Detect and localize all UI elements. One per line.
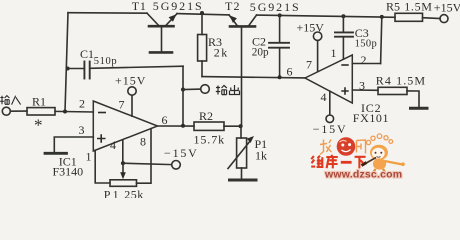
svg-text:3: 3	[79, 123, 85, 137]
terminal +15V right	[440, 15, 448, 23]
resistor R4	[378, 87, 419, 107]
wire top segment T1 to T2	[177, 14, 229, 15]
wire R2 right	[224, 125, 241, 127]
resistor R3	[198, 14, 207, 77]
输	[0, 96, 4, 105]
svg-text:7: 7	[119, 98, 125, 112]
node R3 top	[200, 11, 204, 15]
node output branch	[181, 88, 185, 92]
svg-text:+15V: +15V	[434, 0, 460, 14]
svg-text:R1: R1	[32, 94, 46, 108]
ground IC1 pin3	[45, 152, 67, 155]
入	[12, 96, 21, 105]
下	[355, 157, 366, 169]
node R2 right	[239, 124, 243, 128]
svg-text:510p: 510p	[94, 56, 117, 67]
ground P1 1k	[230, 179, 257, 182]
svg-text:FX101: FX101	[353, 111, 389, 125]
watermark seal circle face	[337, 137, 356, 156]
node C1 left	[66, 67, 70, 71]
svg-text:6: 6	[162, 113, 168, 127]
svg-text:2: 2	[361, 53, 367, 67]
watermark mascot	[362, 134, 405, 172]
wire top-left vertical from R1 node up to corner	[65, 13, 68, 112]
svg-text:F3140: F3140	[53, 164, 84, 178]
resistor R1	[27, 108, 55, 115]
wire IC1 pin3	[54, 137, 93, 152]
node 输入 input label (drawn glyphs)	[0, 96, 20, 105]
svg-text:7: 7	[306, 58, 312, 72]
svg-text:*: *	[34, 116, 43, 135]
node 输出 output label (drawn glyphs)	[216, 85, 240, 95]
terminal output	[201, 85, 210, 94]
capacitor C3	[335, 16, 353, 59]
一	[341, 161, 352, 164]
terminal -15V IC2	[326, 115, 334, 123]
op-amp IC1 F3140	[93, 101, 157, 151]
wiper arrow P1 25k	[120, 163, 126, 179]
potentiometer P1 1k	[228, 126, 254, 178]
wire IC1 pin1	[95, 150, 110, 183]
wire pin2 horizontal	[352, 63, 380, 65]
op-amp IC2 FX101	[305, 55, 352, 103]
svg-text:T1: T1	[132, 0, 147, 13]
svg-text:1: 1	[331, 46, 337, 60]
wire top horizontal left segment	[68, 12, 147, 15]
svg-text:15.7k: 15.7k	[194, 133, 226, 147]
svg-text:R5: R5	[386, 0, 400, 14]
resistor R5	[395, 13, 440, 21]
node pin6/feedback	[181, 124, 185, 128]
wire IC2 pin7	[317, 41, 319, 72]
输	[216, 86, 220, 95]
minus IC2	[341, 64, 348, 66]
wire IC2 output to R3	[202, 77, 305, 78]
svg-text:R2: R2	[199, 109, 213, 123]
svg-text:+15V: +15V	[297, 21, 325, 35]
svg-text:4: 4	[110, 138, 116, 152]
wire IC1 pin7	[131, 95, 133, 116]
wire IC1 pin8	[137, 129, 152, 184]
node C2 bottom	[278, 75, 282, 79]
wire input to R1	[10, 110, 27, 112]
terminal input	[2, 107, 10, 115]
svg-text:1: 1	[86, 150, 92, 164]
svg-text:4: 4	[321, 90, 327, 104]
wire pin2 feedback vertical	[381, 17, 382, 64]
terminal +15V IC2	[313, 32, 321, 40]
svg-text:5G921S: 5G921S	[250, 0, 301, 14]
wire IC2 pin3	[352, 89, 378, 91]
svg-text:+15V: +15V	[115, 73, 146, 87]
capacitor C1	[67, 62, 183, 79]
wire top segment T2 to R5	[257, 15, 396, 17]
svg-text:20p: 20p	[252, 46, 269, 58]
node pin4 wiper	[121, 161, 125, 165]
svg-text:2k: 2k	[214, 45, 229, 59]
node R1 right	[63, 110, 67, 114]
node C2 top	[278, 13, 282, 17]
svg-text:5G921S: 5G921S	[153, 0, 204, 13]
minus IC1	[98, 112, 106, 114]
watermark 维库一下 red glyphs	[311, 155, 365, 169]
svg-text:−15V: −15V	[164, 146, 199, 160]
node R5 / pin2 feedback	[380, 15, 384, 19]
svg-text:P1: P1	[104, 188, 121, 199]
terminal +15V IC1	[128, 87, 136, 95]
svg-text:6: 6	[287, 65, 293, 79]
wire IC1 pin4	[122, 141, 124, 163]
wire R1 to pin2	[55, 110, 93, 113]
svg-text:C1: C1	[80, 47, 94, 61]
resistor R2	[194, 122, 224, 130]
plus IC1	[97, 134, 106, 142]
watermark stamp seal glyphs	[320, 140, 366, 155]
transistor T1	[147, 13, 177, 52]
svg-text:1k: 1k	[255, 149, 267, 163]
plus IC2	[341, 87, 348, 94]
svg-text:1.5M: 1.5M	[404, 0, 432, 14]
维	[311, 156, 315, 167]
svg-text:8: 8	[140, 135, 146, 149]
wire wiper to -15V	[123, 163, 172, 164]
potentiometer P1 25k	[110, 180, 137, 187]
ground R4	[411, 107, 428, 110]
svg-text:2: 2	[79, 97, 85, 111]
svg-text:25k: 25k	[124, 188, 144, 199]
capacitor C2	[269, 15, 289, 77]
wire to output terminal	[183, 88, 201, 90]
svg-text:R4 1.5M: R4 1.5M	[376, 73, 426, 87]
svg-text:3: 3	[359, 79, 365, 93]
terminal -15V IC1	[172, 161, 181, 170]
wire feedback vertical x183	[182, 66, 184, 126]
库	[326, 155, 338, 169]
svg-text:−15V: −15V	[313, 122, 348, 136]
svg-text:www.dzsc.com: www.dzsc.com	[324, 169, 402, 181]
transistor T2	[229, 15, 257, 126]
svg-text:150p: 150p	[355, 38, 378, 49]
op-amp input signs	[97, 65, 349, 143]
出	[230, 85, 240, 95]
svg-text:T2: T2	[225, 0, 241, 13]
wire IC1 pin6	[158, 125, 195, 127]
node C3 top	[341, 14, 345, 18]
wire IC2 pin4	[329, 91, 331, 115]
